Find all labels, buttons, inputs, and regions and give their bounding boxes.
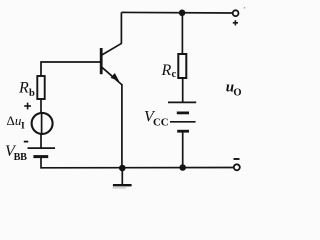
wire source to battery VBB	[40, 134, 42, 148]
svg-text:R: R	[18, 80, 29, 97]
transistor Q1 collector diagonal	[102, 43, 122, 55]
wire base (from Rb top up and right to transistor base)	[41, 62, 100, 77]
transistor Q1 emitter arrow	[111, 73, 120, 81]
resistor R2 Rc	[178, 54, 186, 78]
svg-text:c: c	[172, 69, 177, 80]
terminal output + (open circle top right)	[233, 10, 239, 16]
svg-text:b: b	[29, 88, 35, 99]
wire VCC to bottom rail	[182, 131, 184, 167]
transistor Q1 bar	[100, 48, 103, 74]
transistor Q1 emitter diagonal	[102, 67, 122, 84]
label + (source top)	[24, 103, 31, 110]
wire emitter down	[121, 84, 123, 168]
wire top rail	[121, 11, 233, 14]
label + (top right)	[233, 20, 238, 25]
resistor R1 Rb	[37, 76, 44, 99]
wire Rc top	[181, 13, 183, 54]
battery VCC	[168, 101, 196, 103]
label - (bottom right)	[234, 158, 240, 160]
svg-text:I: I	[21, 122, 25, 132]
svg-text:R: R	[161, 62, 172, 79]
speck artifact top right	[244, 7, 246, 9]
svg-text:BB: BB	[14, 152, 27, 163]
wire Rc bottom to VCC	[182, 78, 184, 102]
battery VBB	[28, 147, 56, 149]
wire VBB to bottom rail	[40, 157, 42, 169]
node B bottom junction dot (Rc branch)	[179, 164, 186, 171]
wire collector up	[120, 12, 122, 43]
terminal output - (open circle bottom right)	[234, 164, 240, 170]
svg-text:Δu: Δu	[7, 113, 22, 128]
wire Rb bottom to source	[40, 99, 42, 114]
source U1 delta-uI (circle, wire passes through)	[41, 112, 43, 135]
wire bottom rail	[41, 167, 234, 169]
svg-text:O: O	[233, 88, 241, 99]
svg-text:CC: CC	[153, 117, 169, 129]
node A top junction dot	[179, 10, 186, 17]
label - (source bottom)	[24, 141, 29, 143]
node C bottom junction dot (emitter/ground)	[119, 165, 126, 172]
ground	[121, 168, 123, 184]
